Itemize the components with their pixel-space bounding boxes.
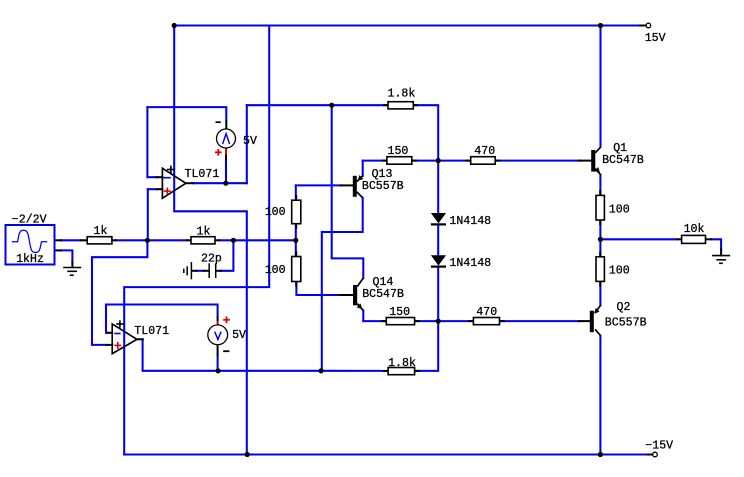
svg-text:100: 100 <box>609 203 630 216</box>
svg-text:Q1: Q1 <box>613 142 627 155</box>
svg-text:−15V: −15V <box>645 440 673 453</box>
svg-text:BC547B: BC547B <box>602 154 644 167</box>
svg-text:1k: 1k <box>197 225 211 238</box>
svg-text:15V: 15V <box>645 32 666 45</box>
svg-text:1N4148: 1N4148 <box>449 257 491 270</box>
svg-text:100: 100 <box>609 264 630 277</box>
svg-text:TL071: TL071 <box>134 325 169 338</box>
svg-text:470: 470 <box>474 145 495 158</box>
svg-text:22p: 22p <box>201 252 222 265</box>
svg-text:470: 470 <box>476 306 497 319</box>
svg-text:5V: 5V <box>243 135 257 148</box>
svg-text:150: 150 <box>389 306 410 319</box>
svg-text:150: 150 <box>388 145 409 158</box>
svg-text:100: 100 <box>265 264 286 277</box>
svg-text:BC547B: BC547B <box>362 288 404 301</box>
svg-text:1.8k: 1.8k <box>388 87 416 100</box>
svg-text:BC557B: BC557B <box>605 316 647 329</box>
svg-text:Q2: Q2 <box>617 301 631 314</box>
svg-text:1k: 1k <box>94 225 108 238</box>
svg-text:−2/2V: −2/2V <box>12 213 47 226</box>
svg-text:1N4148: 1N4148 <box>449 215 491 228</box>
svg-text:5V: 5V <box>232 329 246 342</box>
svg-text:100: 100 <box>265 206 286 219</box>
svg-text:1kHz: 1kHz <box>16 253 44 266</box>
svg-text:10k: 10k <box>684 223 705 236</box>
svg-text:1.8k: 1.8k <box>388 357 416 370</box>
svg-text:BC557B: BC557B <box>362 180 404 193</box>
svg-text:TL071: TL071 <box>185 168 220 181</box>
